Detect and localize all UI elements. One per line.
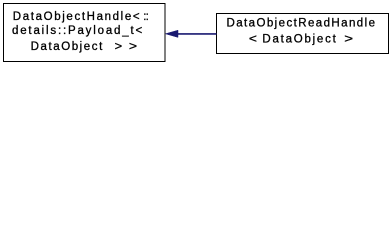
svg-text:DataObjectHandle<: DataObjectHandle< [13, 11, 140, 23]
svg-text:DataObject: DataObject [262, 34, 336, 46]
svg-text:>: > [344, 34, 353, 46]
svg-text:<: < [249, 34, 257, 46]
svg-text:>: > [115, 41, 123, 53]
class box: DataObjectHandle<::details::Payload_t<DataObject>> [4, 4, 166, 62]
svg-text:::: :: [143, 11, 149, 23]
svg-text:>: > [129, 41, 138, 53]
svg-text:DataObject: DataObject [31, 41, 103, 53]
svg-text:DataObjectReadHandle: DataObjectReadHandle [227, 17, 376, 29]
inheritance arrowhead [165, 30, 178, 37]
class box: DataObjectReadHandle<DataObject> [217, 14, 389, 54]
inheritance arrow shaft [177, 33, 217, 35]
svg-text:details::Payload_t<: details::Payload_t< [12, 25, 142, 37]
